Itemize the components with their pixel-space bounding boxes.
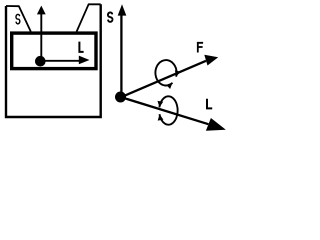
axis L shaft	[121, 97, 209, 124]
arrow S1 head	[37, 6, 46, 15]
arrow L1 shaft	[40, 60, 80, 62]
dot P1	[35, 56, 46, 67]
arrow L1 head	[79, 56, 90, 65]
label S1	[16, 14, 20, 23]
origin dot	[115, 92, 126, 103]
left flag notch	[6, 6, 31, 32]
label S2	[108, 12, 113, 21]
label L1	[79, 42, 83, 52]
axis F head	[204, 55, 218, 66]
rotation ellipse L arc	[159, 96, 177, 124]
axis L head	[206, 118, 226, 131]
right flag notch	[77, 4, 101, 31]
axis F shaft	[121, 61, 207, 98]
arrow S1 shaft	[40, 13, 42, 61]
axis S head	[118, 4, 127, 15]
specimen outer box	[6, 4, 101, 117]
rotation ellipse F arc	[155, 60, 176, 85]
rotation ellipse F arrowhead a	[175, 70, 181, 77]
label L2	[207, 99, 212, 109]
rotation ellipse F arrowhead b	[166, 83, 172, 89]
label F	[198, 43, 203, 53]
inner rectangle	[12, 33, 96, 69]
rotation ellipse L arrowhead a	[158, 114, 164, 120]
rotation ellipse L arrowhead b	[158, 101, 164, 107]
axis S shaft	[120, 14, 122, 97]
